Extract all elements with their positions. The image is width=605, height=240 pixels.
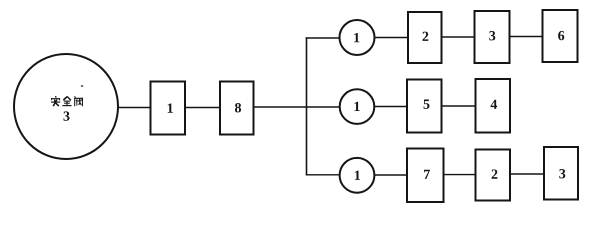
wire: row-1 stub [306,37,340,39]
row-3 circle node [340,158,375,193]
row-1 circle node [340,20,375,55]
row-1 box 2 [408,12,442,63]
label 5 in row-2 box [424,100,430,109]
wire: row-3 stub [306,174,340,176]
row-1 box 3 [475,11,510,63]
box B8 [220,82,254,135]
wire: row-3 circle to box 7 [375,174,408,176]
label char Quan (全) [62,96,71,106]
scan speck artifact [81,85,84,87]
row-3 box 2 [476,150,511,201]
label 3 in row-3 box [559,169,565,178]
wire: row-1 box 3 to box 6 [510,36,543,38]
big circle node: safety valve [14,54,118,159]
wire: row-2 box 5 to box 4 [442,105,476,107]
wire: row-1 circle to box 2 [375,37,409,39]
label 2 in row-3 box [492,169,498,178]
row-3 box 7 [407,149,444,203]
label char An (安) [51,96,60,106]
wire: row-3 box 2 to box 3 [510,173,544,175]
label 1 in row-3 circle [355,171,360,180]
label char Fa (阀) [74,96,83,106]
wire: row-2 circle to box 5 [374,106,407,108]
label 1 in row-1 circle [354,33,359,42]
label 8 in box B8 [235,103,241,112]
wire: row-3 box 7 to box 2 [444,174,476,176]
row-1 box 6 [543,10,578,62]
box B1 [151,82,186,135]
label 1 in box B1 [168,103,173,112]
vertical branch line [306,37,308,175]
row-2 circle node [340,89,375,124]
row-2 box 4 [476,79,511,133]
label 7 in row-3 box [424,170,430,179]
label 3 in big circle [64,111,70,120]
wire: box B1 to box B8 [185,107,220,109]
wire: big circle to box B1 [118,107,151,109]
wire: box B8 through junction to row-2 circle [254,106,340,108]
label 1 in row-2 circle [355,102,360,111]
row-2 box 5 [407,80,442,133]
label 2 in row-1 box [422,32,428,41]
label 4 in row-2 box [491,100,498,109]
wire: row-1 box 2 to box 3 [442,36,475,38]
label 3 in row-1 box [489,31,495,40]
row-3 box 3 [544,147,578,200]
label 6 in row-1 box [558,31,564,40]
